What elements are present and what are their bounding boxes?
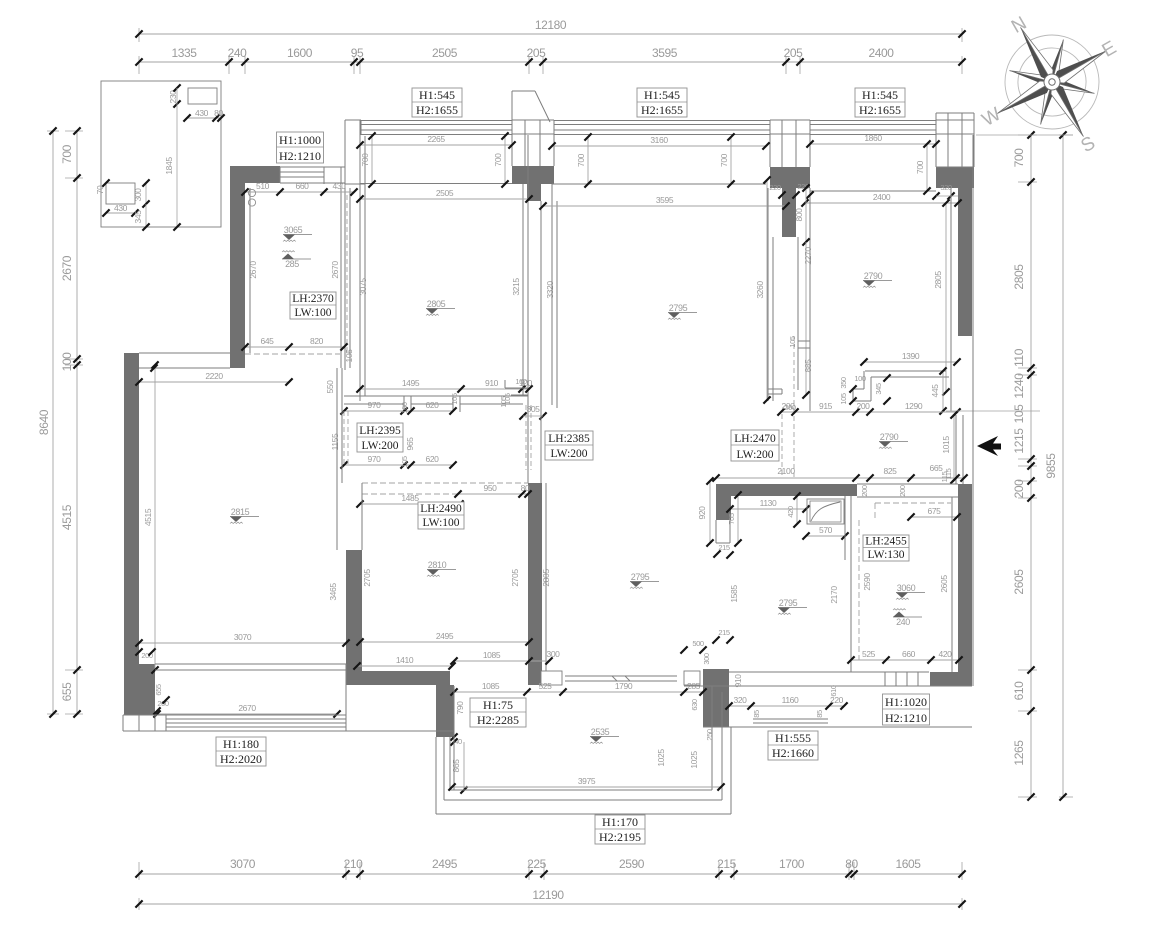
svg-text:LW:100: LW:100 — [422, 517, 459, 529]
svg-text:645: 645 — [261, 336, 275, 346]
dim chain left total 8640 — [52, 131, 54, 714]
svg-text:965: 965 — [405, 437, 415, 451]
svg-text:300: 300 — [547, 649, 561, 659]
window label box H1:545 b — [637, 88, 687, 117]
room2 right wall lines — [522, 184, 524, 396]
svg-text:570: 570 — [819, 525, 833, 535]
window right wall lines — [950, 188, 952, 411]
svg-text:3075: 3075 — [358, 278, 368, 296]
bath dim 215 — [713, 550, 720, 557]
svg-text:445: 445 — [930, 384, 940, 398]
svg-text:320: 320 — [940, 183, 952, 192]
svg-text:525: 525 — [862, 649, 876, 659]
svg-text:3465: 3465 — [328, 583, 338, 601]
svg-text:3065: 3065 — [284, 225, 303, 235]
svg-text:H1:75: H1:75 — [483, 698, 513, 712]
svg-text:2670: 2670 — [60, 255, 74, 281]
room4 wall jog 105 — [798, 340, 810, 342]
living wall inner line bottom — [155, 669, 346, 671]
svg-text:2670: 2670 — [330, 261, 340, 279]
room4 closet dim 1390 — [864, 361, 957, 363]
svg-text:LH:2385: LH:2385 — [548, 433, 590, 445]
svg-text:2495: 2495 — [436, 631, 454, 641]
svg-text:200: 200 — [857, 401, 871, 411]
svg-text:320: 320 — [734, 695, 748, 705]
room3 right wall lines — [767, 188, 769, 401]
svg-text:H1:555: H1:555 — [775, 731, 811, 745]
room4 top dim 2400 — [805, 202, 958, 204]
door label box LH:2455 LW:130 — [863, 535, 909, 561]
dining right wall face line — [951, 497, 953, 672]
room8 left wall line — [361, 483, 363, 550]
svg-text:H2:1655: H2:1655 — [416, 103, 458, 117]
svg-text:1390: 1390 — [902, 351, 920, 361]
room4 dim 2270 — [805, 242, 807, 395]
svg-text:665: 665 — [930, 463, 944, 473]
bay depth dim 700 e — [926, 144, 928, 191]
svg-text:H2:1660: H2:1660 — [772, 746, 814, 760]
window pier mullions top-middle — [512, 113, 554, 166]
bedroom right bottom dim 525/660/420 — [851, 659, 959, 661]
dim 305 small — [519, 412, 526, 419]
svg-text:205: 205 — [784, 46, 804, 60]
svg-text:205: 205 — [527, 46, 547, 60]
room8 top dashed lines — [362, 482, 528, 484]
svg-text:510: 510 — [256, 181, 270, 191]
svg-text:655: 655 — [154, 684, 163, 696]
kitchen wall jog — [768, 388, 782, 390]
dim chain left segments — [76, 131, 78, 714]
svg-text:420: 420 — [786, 506, 795, 518]
svg-text:2805: 2805 — [933, 271, 943, 289]
svg-text:225: 225 — [527, 857, 547, 871]
svg-text:700: 700 — [1012, 148, 1026, 168]
living window band bottom — [123, 714, 346, 716]
svg-text:LW:200: LW:200 — [736, 449, 773, 461]
svg-text:200: 200 — [898, 485, 907, 497]
svg-text:660: 660 — [902, 649, 916, 659]
svg-text:2790: 2790 — [880, 432, 899, 442]
svg-text:105: 105 — [788, 336, 797, 348]
window label box H1:170 H2:2195 — [595, 815, 645, 844]
svg-text:H1:545: H1:545 — [419, 88, 455, 102]
svg-text:3595: 3595 — [656, 195, 674, 205]
svg-text:3975: 3975 — [578, 776, 596, 786]
room4 window dim 1860 — [810, 143, 936, 145]
svg-text:80: 80 — [214, 108, 223, 118]
room4 dim 445 — [942, 371, 944, 411]
svg-text:700: 700 — [576, 153, 586, 167]
svg-text:220: 220 — [769, 183, 781, 192]
corridor dim 970/105/620 lower — [344, 464, 453, 466]
svg-text:105: 105 — [400, 456, 409, 468]
room3 window dim 3160 — [552, 145, 766, 147]
room4 dim 3260 — [766, 180, 768, 400]
svg-text:620: 620 — [426, 400, 440, 410]
level marker 285 — [282, 258, 311, 260]
svg-text:1130: 1130 — [760, 498, 777, 508]
svg-text:2815: 2815 — [231, 507, 250, 517]
svg-text:2805: 2805 — [427, 299, 446, 309]
door label box LH:2470 LW:200 — [731, 430, 779, 461]
dim chain bottom total 12190 — [139, 903, 962, 905]
corridor dashed door lines — [343, 411, 345, 465]
bay depth dim 700 a — [371, 136, 373, 184]
svg-text:610: 610 — [829, 685, 838, 697]
svg-text:110: 110 — [1012, 348, 1026, 367]
door label box LH:2395 LW:200 — [357, 423, 403, 452]
svg-text:215: 215 — [718, 543, 730, 552]
svg-text:420: 420 — [939, 649, 953, 659]
svg-text:915: 915 — [819, 401, 833, 411]
hall bottom dim 1085/525/1790/285 — [454, 691, 703, 693]
svg-text:700: 700 — [493, 153, 503, 167]
svg-text:200: 200 — [782, 401, 796, 411]
svg-text:2705: 2705 — [510, 569, 520, 587]
svg-text:800: 800 — [794, 208, 804, 222]
svg-text:660: 660 — [296, 181, 310, 191]
door label box LH:2385 LW:200 — [545, 431, 593, 460]
inset dim 300 — [145, 183, 147, 204]
svg-text:1410: 1410 — [396, 655, 414, 665]
svg-text:85: 85 — [752, 710, 761, 718]
bath dim 420 — [796, 496, 798, 524]
wall bottom-right arm — [930, 672, 972, 686]
room2 top dim 2505 — [360, 198, 529, 200]
svg-text:3070: 3070 — [230, 857, 256, 871]
window band top — [361, 120, 936, 122]
svg-text:3070: 3070 — [234, 632, 252, 642]
svg-text:1495: 1495 — [402, 378, 420, 388]
window label box H1:1000 — [277, 132, 324, 163]
room2 window dim 2265 — [360, 144, 512, 146]
svg-text:200: 200 — [860, 485, 869, 497]
hall sliding door blocks — [541, 671, 562, 685]
svg-text:2590: 2590 — [862, 573, 872, 591]
bedroom right dim 675 — [911, 516, 957, 518]
svg-text:525: 525 — [539, 681, 553, 691]
svg-text:705: 705 — [727, 513, 736, 525]
svg-text:H1:180: H1:180 — [223, 737, 259, 751]
svg-text:550: 550 — [325, 380, 335, 394]
extension line building to right chain top — [976, 134, 1073, 136]
wall center-left vertical — [346, 550, 362, 671]
svg-text:305: 305 — [527, 404, 541, 414]
svg-text:85: 85 — [815, 710, 824, 718]
inset small rect top — [188, 88, 217, 104]
room2 bottom dim 1495/910/100 — [360, 388, 529, 390]
svg-text:H2:2195: H2:2195 — [599, 830, 641, 844]
svg-text:790: 790 — [455, 701, 465, 715]
room1 dashed door line — [346, 195, 348, 354]
svg-text:1155: 1155 — [330, 433, 340, 450]
dim chain right segments — [1030, 135, 1032, 797]
room4 left wall lines — [809, 188, 811, 411]
svg-text:LW:200: LW:200 — [550, 448, 587, 460]
svg-text:1265: 1265 — [1012, 740, 1026, 766]
svg-text:825: 825 — [884, 466, 898, 476]
room8 bottom dim 1085/300 — [454, 660, 549, 662]
inset detail box outline — [101, 81, 221, 227]
svg-text:105: 105 — [344, 349, 354, 363]
svg-text:105: 105 — [839, 393, 848, 405]
svg-text:2795: 2795 — [631, 572, 650, 582]
hall sliding door track — [565, 675, 677, 677]
svg-text:700: 700 — [915, 160, 925, 174]
inset dim 1845 — [176, 104, 178, 227]
svg-text:700: 700 — [719, 153, 729, 167]
svg-text:970: 970 — [368, 454, 382, 464]
svg-text:LH:2455: LH:2455 — [865, 535, 907, 547]
bath dim 1130 — [730, 508, 806, 510]
bay depth dim 700 a2 — [504, 136, 506, 184]
bedroom right dashed outline — [858, 520, 860, 660]
living top dim 2220 — [139, 381, 289, 383]
svg-text:H1:1020: H1:1020 — [885, 695, 927, 709]
svg-text:LW:100: LW:100 — [294, 307, 331, 319]
window label box H1:180 H2:2020 — [216, 737, 266, 766]
dim chain right total 9855 — [1062, 135, 1064, 797]
wall top-left vertical — [230, 166, 245, 368]
svg-text:2705: 2705 — [362, 569, 372, 587]
level marker 240 — [893, 616, 922, 618]
wall dining block — [703, 669, 729, 727]
svg-text:610: 610 — [1012, 681, 1026, 701]
svg-text:H2:1210: H2:1210 — [279, 149, 321, 163]
svg-text:3260: 3260 — [755, 281, 765, 299]
room2 top wall line — [345, 183, 365, 185]
svg-text:630: 630 — [690, 699, 699, 711]
window pier mullions top-right — [770, 113, 810, 167]
room8 dim 950/80 — [458, 493, 528, 495]
svg-text:4515: 4515 — [143, 508, 153, 526]
svg-text:700: 700 — [60, 144, 74, 164]
bath door dashed lines — [525, 405, 527, 470]
room4 dim 2805 interior — [945, 203, 947, 392]
svg-text:1700: 1700 — [779, 857, 805, 871]
svg-text:2795: 2795 — [669, 303, 688, 313]
left garden wall outline — [344, 120, 346, 184]
svg-text:240: 240 — [896, 617, 910, 627]
svg-text:3060: 3060 — [897, 583, 916, 593]
svg-text:LH:2395: LH:2395 — [359, 425, 401, 437]
window label box H1:75 H2:2285 — [470, 698, 526, 727]
svg-text:2670: 2670 — [238, 703, 256, 713]
dim chain bottom segments — [139, 873, 962, 875]
svg-text:215: 215 — [718, 628, 730, 637]
room8 bottom dim 1410 — [357, 665, 452, 667]
shower unit — [807, 499, 844, 524]
room1 top dim 510/660/430 — [245, 191, 354, 193]
svg-text:655: 655 — [60, 682, 74, 702]
svg-text:1790: 1790 — [615, 681, 633, 691]
svg-text:3160: 3160 — [650, 135, 668, 145]
svg-text:430: 430 — [195, 108, 209, 118]
door label box LH:2370 LW:100 — [290, 292, 336, 319]
svg-text:LW:200: LW:200 — [361, 440, 398, 452]
svg-text:H1:545: H1:545 — [862, 88, 898, 102]
living window dim 2670 — [157, 713, 337, 715]
svg-text:820: 820 — [310, 336, 324, 346]
kitchen bottom jogs — [505, 387, 528, 389]
svg-text:LH:2370: LH:2370 — [292, 293, 334, 305]
window H1:1000 band — [280, 166, 324, 168]
svg-text:250: 250 — [705, 729, 714, 741]
svg-text:200: 200 — [1012, 479, 1026, 499]
svg-text:100: 100 — [515, 377, 527, 386]
svg-text:430: 430 — [114, 203, 128, 213]
svg-text:910: 910 — [485, 378, 499, 388]
dashed sliding line below room1 — [245, 353, 340, 355]
svg-text:H2:2285: H2:2285 — [477, 713, 519, 727]
svg-text:105: 105 — [1012, 404, 1026, 424]
room8 bottom dim 2495 — [360, 641, 529, 643]
svg-text:80: 80 — [521, 483, 530, 493]
svg-text:8640: 8640 — [37, 409, 51, 435]
wall right lower — [958, 484, 972, 686]
svg-text:12190: 12190 — [532, 888, 564, 902]
svg-text:970: 970 — [368, 400, 382, 410]
bath dim 920 — [709, 481, 711, 543]
svg-text:350: 350 — [839, 377, 848, 389]
steps to dining — [885, 671, 929, 673]
svg-text:1160: 1160 — [782, 695, 799, 705]
svg-text:2270: 2270 — [803, 247, 813, 265]
duct shape above band — [511, 91, 513, 122]
svg-text:345: 345 — [874, 383, 883, 395]
svg-text:865: 865 — [451, 759, 461, 773]
dim chain top segments — [139, 61, 962, 63]
window label box H1:545 a — [412, 88, 462, 117]
room4 dim 800 — [805, 188, 807, 242]
bath dim 705 — [737, 496, 739, 543]
window label box H1:545 c — [855, 88, 905, 117]
svg-text:675: 675 — [928, 506, 942, 516]
inset dim 430/80 top — [187, 117, 221, 119]
svg-text:100: 100 — [60, 352, 74, 372]
svg-text:2790: 2790 — [864, 271, 883, 281]
svg-text:3215: 3215 — [511, 278, 521, 296]
svg-text:80: 80 — [845, 857, 858, 871]
svg-text:115: 115 — [944, 468, 953, 479]
svg-text:2400: 2400 — [868, 46, 894, 60]
room3 top dim 3595 — [543, 205, 786, 207]
room4 bottom dim 200/915/200/1290 — [781, 411, 957, 413]
svg-text:885: 885 — [803, 359, 813, 373]
balcony floor lines — [450, 789, 712, 791]
svg-text:105: 105 — [499, 396, 508, 408]
dining top wall lines — [857, 483, 958, 485]
svg-text:2495: 2495 — [432, 857, 458, 871]
svg-text:285: 285 — [285, 259, 299, 269]
svg-text:300: 300 — [133, 188, 143, 202]
svg-text:2605: 2605 — [1012, 569, 1026, 595]
wall center vertical — [528, 483, 542, 685]
room8 dim 1485 — [360, 503, 460, 505]
balcony dim 865 — [463, 742, 465, 790]
right window opening lines — [955, 415, 957, 484]
bay2 sill line — [552, 183, 766, 185]
dining bottom wall line — [684, 685, 972, 687]
svg-text:4515: 4515 — [60, 504, 74, 530]
svg-text:1605: 1605 — [895, 857, 921, 871]
svg-text:1085: 1085 — [482, 681, 500, 691]
balcony dim 3975 — [452, 786, 721, 788]
svg-text:2605: 2605 — [939, 575, 949, 593]
bath niche below leg — [715, 520, 717, 543]
svg-text:215: 215 — [717, 857, 737, 871]
right window dim 1015 — [953, 415, 955, 480]
svg-text:920: 920 — [697, 506, 707, 520]
door label box LH:2490 LW:100 — [418, 502, 464, 529]
corridor wall lines below room2 — [344, 395, 528, 397]
svg-text:2670: 2670 — [248, 261, 258, 279]
room2 left wall lines — [359, 120, 361, 401]
wall right upper — [958, 188, 972, 336]
wall line room1 to living — [139, 352, 230, 354]
living right wall lines — [336, 368, 338, 550]
compass rose — [946, 0, 1150, 193]
svg-text:100: 100 — [400, 402, 409, 414]
bath top dim 2100/200/825/665/115 — [716, 477, 964, 479]
svg-text:1845: 1845 — [164, 157, 174, 175]
dining sliding door track — [753, 718, 828, 720]
svg-text:1585: 1585 — [729, 585, 739, 603]
svg-text:230: 230 — [168, 90, 178, 104]
svg-text:300: 300 — [702, 653, 711, 665]
window label box H1:555 H2:1660 — [768, 731, 818, 760]
svg-text:700: 700 — [360, 153, 370, 167]
wall center-left horizontal — [346, 671, 450, 685]
wall left exterior — [124, 353, 139, 715]
svg-text:H1:170: H1:170 — [602, 815, 638, 829]
svg-text:H2:1210: H2:1210 — [885, 711, 927, 725]
window corner block top-right — [936, 106, 974, 167]
svg-text:430: 430 — [333, 181, 347, 191]
inset dim 345 — [145, 204, 147, 227]
svg-text:620: 620 — [426, 454, 440, 464]
svg-text:2810: 2810 — [428, 560, 447, 570]
svg-text:1335: 1335 — [171, 46, 197, 60]
svg-text:1290: 1290 — [905, 401, 923, 411]
svg-text:1240: 1240 — [1012, 373, 1026, 399]
svg-text:H1:1000: H1:1000 — [279, 133, 321, 147]
dining door dim 320/1160/220 — [729, 705, 844, 707]
svg-text:H2:1655: H2:1655 — [859, 103, 901, 117]
corridor dim 970/100/620 upper — [344, 410, 453, 412]
svg-text:1860: 1860 — [864, 133, 882, 143]
room1 gas pipe circles — [248, 189, 255, 196]
bay3 sill line — [810, 190, 936, 192]
bay1 sill line — [360, 183, 512, 185]
room3 left wall lines — [540, 201, 542, 483]
dim chain top total 12180 — [139, 33, 962, 35]
wall pier top-right — [770, 167, 810, 188]
wall bath horizontal — [716, 484, 857, 496]
svg-text:LW:130: LW:130 — [867, 549, 904, 561]
svg-text:1085: 1085 — [483, 650, 501, 660]
svg-text:910: 910 — [733, 674, 743, 688]
svg-text:1025: 1025 — [689, 751, 699, 769]
wall face line right of center wall — [545, 483, 547, 672]
svg-text:500: 500 — [692, 639, 704, 648]
inset dim 430 bottom — [106, 212, 135, 214]
svg-text:2170: 2170 — [829, 586, 839, 604]
svg-text:1485: 1485 — [401, 493, 419, 503]
svg-text:2265: 2265 — [427, 134, 445, 144]
svg-text:210: 210 — [344, 857, 364, 871]
svg-text:3595: 3595 — [652, 46, 678, 60]
